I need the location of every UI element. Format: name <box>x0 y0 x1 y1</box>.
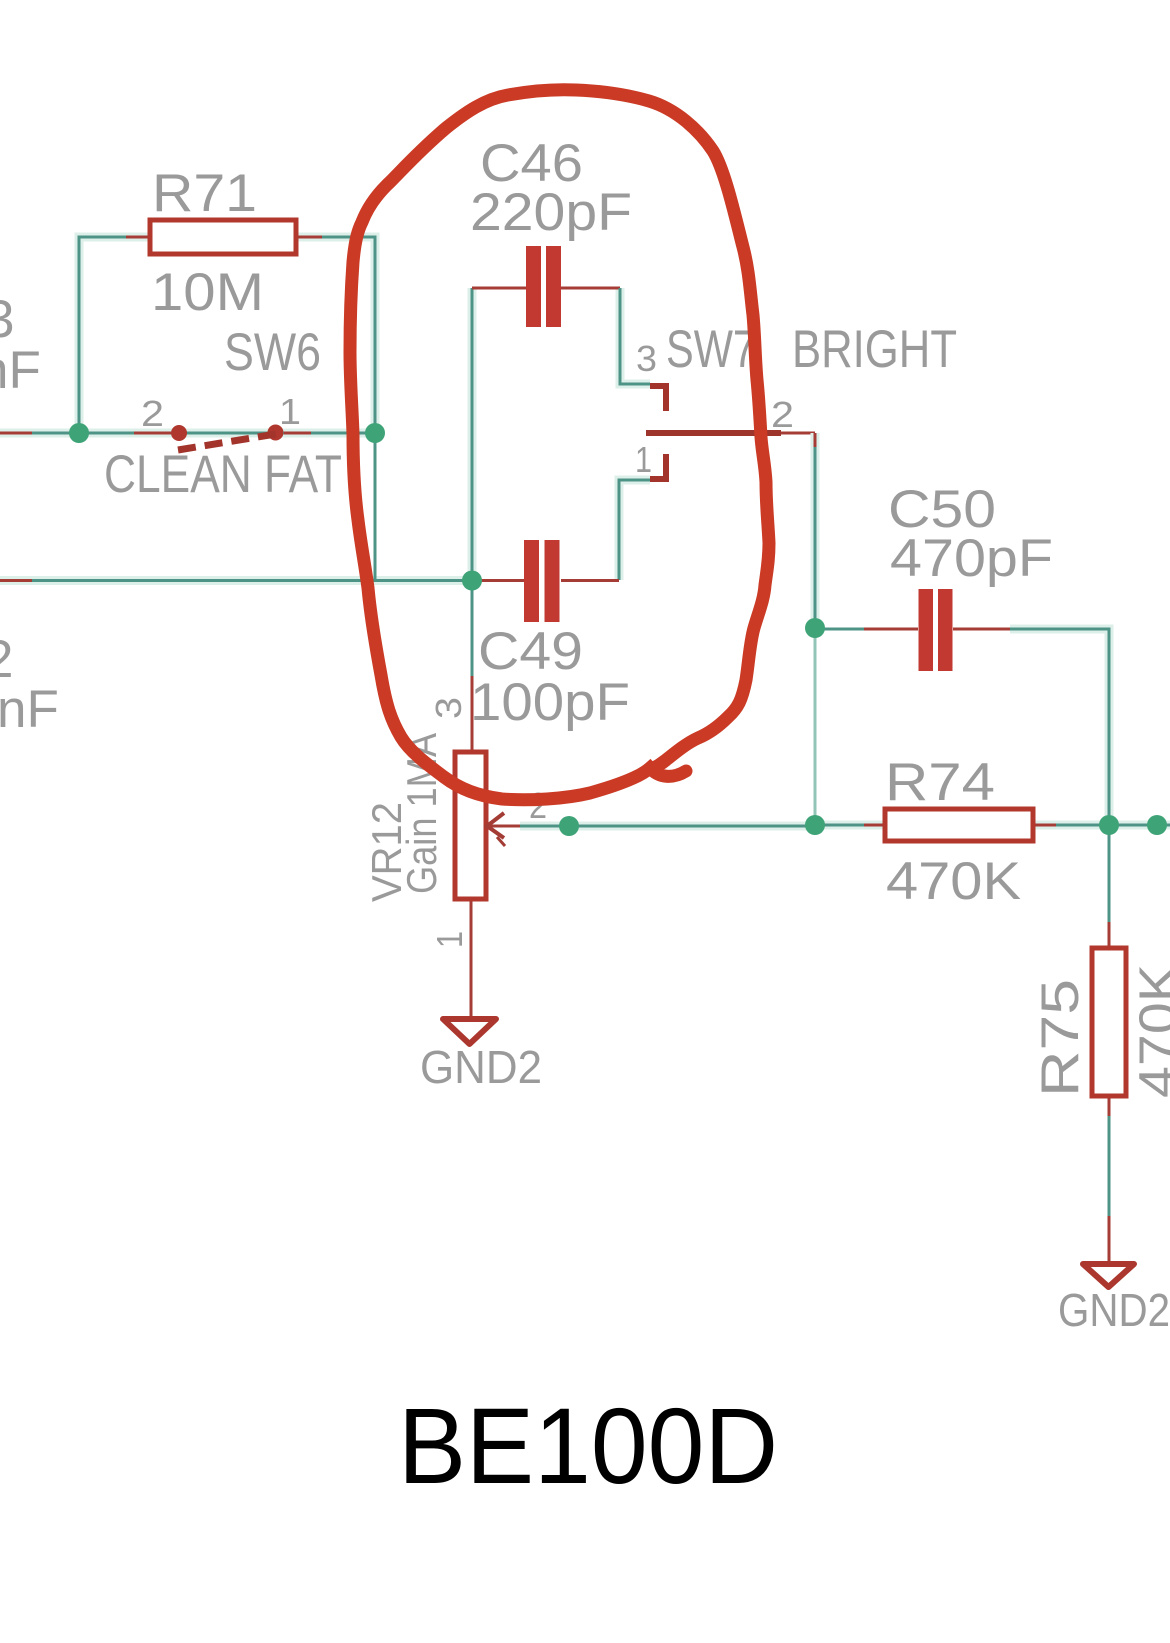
wire C46 right to SW7 pin3 <box>561 288 666 411</box>
svg-text:3: 3 <box>428 697 469 719</box>
switch SW6 lever <box>178 434 276 450</box>
wire net B horizontal left <box>0 576 472 585</box>
capacitor C49 <box>524 540 560 622</box>
switch SW6 contact dots <box>171 425 284 442</box>
svg-text:CLEAN FAT: CLEAN FAT <box>104 445 342 504</box>
hand-drawn red circle annotation <box>350 90 769 800</box>
svg-text:3: 3 <box>636 338 657 379</box>
junction node B (375,433) <box>365 423 385 443</box>
wire C50 left <box>815 628 918 631</box>
wire C50 right down to R74 right <box>953 629 1109 825</box>
svg-text:SW6: SW6 <box>224 323 321 382</box>
wire VR12 bottom pin to ground <box>470 901 473 1017</box>
ground GND2 left <box>443 1019 496 1044</box>
junction node G (1109,825) <box>1099 815 1119 835</box>
svg-text:1: 1 <box>635 439 652 480</box>
wire SW7 pin1 to C49 right <box>561 480 650 581</box>
wire net A horizontal left <box>0 429 375 438</box>
svg-text:2: 2 <box>141 393 164 434</box>
switch SW7 lever <box>646 430 815 436</box>
svg-text:BRIGHT: BRIGHT <box>792 320 957 379</box>
wire VR12 top pin <box>471 581 474 751</box>
junction node A (79,433) <box>69 423 89 443</box>
svg-text:470K: 470K <box>1129 964 1170 1098</box>
svg-text:nF: nF <box>0 680 59 739</box>
wire R75 top pin <box>1108 825 1111 946</box>
wire C46 left riser <box>472 288 526 581</box>
junction node H (1157,825) <box>1147 815 1167 835</box>
wire junction to wiper net (pale) <box>814 628 817 825</box>
svg-text:R71: R71 <box>152 164 257 223</box>
svg-text:SW7: SW7 <box>666 320 756 379</box>
junction node F (815,825) <box>805 815 825 835</box>
svg-text:100pF: 100pF <box>470 673 630 732</box>
capacitor C50 <box>919 589 953 671</box>
svg-text:R75: R75 <box>1031 979 1090 1097</box>
junction node C (472,580.5) <box>462 571 482 591</box>
wire SW7 pin2 down <box>811 433 820 628</box>
VR12 wiper arrow <box>487 813 505 846</box>
wire R75 bottom to ground <box>1108 1098 1111 1262</box>
svg-text:1: 1 <box>279 391 301 432</box>
svg-text:1: 1 <box>429 931 470 948</box>
svg-text:470pF: 470pF <box>890 529 1053 588</box>
svg-text:BE100D: BE100D <box>398 1385 778 1506</box>
svg-text:10M: 10M <box>151 263 264 322</box>
wire wiper net <box>487 822 815 831</box>
wire vertical junction to net B <box>374 433 377 581</box>
svg-text:R74: R74 <box>885 753 995 812</box>
svg-text:nF: nF <box>0 341 41 400</box>
svg-text:GND2: GND2 <box>420 1041 542 1093</box>
svg-text:220pF: 220pF <box>470 183 632 242</box>
pin 1 SW7 contact <box>650 454 666 479</box>
wire R74 net <box>815 821 1170 830</box>
ground GND2 right <box>1083 1264 1134 1287</box>
resistor R71 <box>150 220 296 254</box>
junction node D (569,826) <box>559 816 579 836</box>
resistor R74 <box>885 809 1033 841</box>
resistor R75 <box>1092 948 1126 1096</box>
potentiometer VR12 <box>455 752 486 899</box>
wire R71 loop <box>79 237 375 433</box>
wire C49 left pin <box>472 579 524 582</box>
svg-text:2: 2 <box>771 394 794 435</box>
switch SW6 pin wires <box>134 432 311 435</box>
svg-text:GND2: GND2 <box>1058 1284 1170 1336</box>
capacitor C46 <box>526 246 561 327</box>
junction node E (815,628) <box>805 618 825 638</box>
svg-text:470K: 470K <box>886 852 1021 911</box>
